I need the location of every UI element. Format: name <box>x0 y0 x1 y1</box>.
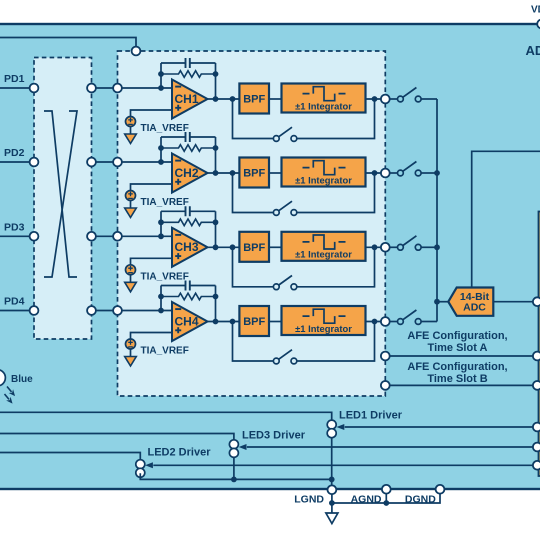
LED3 driver current source <box>229 440 238 458</box>
node PD3 AFE edge <box>113 232 122 241</box>
capacitor C4 plates <box>186 281 190 291</box>
wire integrator1 out <box>366 98 386 100</box>
integrator block 3 <box>282 232 366 261</box>
wire LED2 driver bus <box>0 453 140 460</box>
BPF block 3 <box>239 232 269 262</box>
junction CH4 output fb <box>213 319 219 325</box>
source TIA_VREF1 plus-minus <box>128 118 133 125</box>
wire bypass4 up <box>297 322 375 362</box>
junction CH4 fb-res right <box>213 294 219 300</box>
junction bypass rejoin CH4 <box>372 319 378 325</box>
capacitor C2 wires <box>161 136 216 138</box>
wire slot1 to bus <box>421 98 437 100</box>
junction CH2 input <box>158 159 164 165</box>
pad LGND <box>328 485 337 494</box>
wire LGND to ground <box>331 494 333 513</box>
junction CH3 fb-res left <box>158 219 164 225</box>
wire ADC output <box>493 301 537 303</box>
reference arrow TIA_VREF4 <box>125 357 137 367</box>
pad LED2 ctrl (right edge) <box>533 461 540 470</box>
op-amp CH1 minus mark <box>175 86 181 88</box>
capacitor C2 plates <box>186 132 190 142</box>
pad AGND <box>382 485 391 494</box>
wire BPF1 to integrator <box>269 98 282 100</box>
wire ADC input bus <box>436 99 438 322</box>
node CH2 AFE output <box>381 169 390 178</box>
wire CH3 inverting input <box>118 235 173 237</box>
BPF block 1 <box>239 84 269 114</box>
op-amp CH1 <box>172 80 208 119</box>
wire VDD feed <box>0 38 136 52</box>
junction CH4 input <box>158 308 164 314</box>
integrator 2 chopper glyph <box>303 161 346 175</box>
switch bypass3 lever <box>279 276 292 286</box>
pad LED1 ctrl (right edge) <box>533 423 540 432</box>
node PD1 AFE edge <box>113 84 122 93</box>
op-amp CH2 plus mark <box>175 179 181 185</box>
op-amp CH2 <box>172 154 208 193</box>
switch slot2 lever <box>403 162 417 172</box>
op-amp CH1 plus mark <box>175 105 181 111</box>
junction CH4 fb-res left <box>158 294 164 300</box>
switch bypass3 left contact <box>273 284 279 290</box>
wire CH4 noninverting input <box>131 333 173 340</box>
capacitor C3 wires <box>161 210 216 212</box>
svg-text:ADC: ADC <box>463 301 486 313</box>
wire CH1 noninverting input <box>131 110 173 117</box>
wire CH2 feedback right <box>215 137 217 173</box>
node PD4 AFE edge <box>113 306 122 315</box>
svg-text:CH1: CH1 <box>174 92 198 106</box>
op-amp CH4 minus mark <box>175 308 181 310</box>
svg-text:VDD: VDD <box>531 5 540 16</box>
svg-text:±1 Integrator: ±1 Integrator <box>295 249 352 260</box>
wire CH3 feedback left <box>160 211 162 236</box>
wire to slot switch 2 <box>390 172 398 174</box>
svg-text:LED2 Driver: LED2 Driver <box>148 447 212 459</box>
svg-text:TIA_VREF: TIA_VREF <box>141 271 189 282</box>
wire to slot switch 1 <box>390 98 398 100</box>
junction bypass tap CH3 <box>230 244 236 250</box>
ground symbol <box>326 513 338 524</box>
wire PD3 input <box>0 235 34 237</box>
wire CH1 feedback left <box>160 63 162 88</box>
wire LED1 driver bus <box>0 412 332 420</box>
wire BPF2 to integrator <box>269 172 282 174</box>
wire CH2 output <box>208 172 240 174</box>
LED Blue emission arrows <box>2 385 17 406</box>
junction CH1 output fb <box>213 96 219 102</box>
switch bypass1 left contact <box>273 136 279 142</box>
switch bypass3 right contact <box>291 284 297 290</box>
LED1 driver control arrowhead <box>337 424 345 430</box>
resistor R2 <box>161 145 216 152</box>
LED3 driver control arrowhead <box>239 444 247 450</box>
pad slot B (right edge) <box>533 381 540 390</box>
ADC block (14-bit) <box>448 288 493 316</box>
node PD1 crossbar right <box>87 84 96 93</box>
svg-text:BPF: BPF <box>243 242 265 254</box>
junction bypass tap CH1 <box>230 96 236 102</box>
junction CH1 fb-res right <box>213 71 219 77</box>
node PD4 crossbar left <box>30 306 39 315</box>
node PD2 crossbar left <box>30 158 39 167</box>
svg-text:CH2: CH2 <box>174 166 198 180</box>
wire bypass2 up <box>297 173 375 213</box>
svg-text:±1 Integrator: ±1 Integrator <box>295 100 352 111</box>
node CH1 AFE output <box>381 95 390 104</box>
switch slot2 right contact <box>415 170 421 176</box>
wire PD4 to AFE <box>92 310 118 312</box>
capacitor C1 plates <box>186 58 190 68</box>
pad LED3 ctrl (right edge) <box>533 443 540 452</box>
reference arrow TIA_VREF2 <box>125 208 137 218</box>
switch slot1 left contact <box>398 96 404 102</box>
wire to slot switch 4 <box>390 321 398 323</box>
integrator 1 chopper glyph <box>303 87 346 101</box>
switch bypass2 right contact <box>291 210 297 216</box>
node PD1 crossbar left <box>30 84 39 93</box>
switch slot3 right contact <box>415 244 421 250</box>
crossbar line 1 <box>44 111 77 277</box>
svg-text:±1 Integrator: ±1 Integrator <box>295 323 352 334</box>
junction bypass tap CH4 <box>230 319 236 325</box>
wire CH2 noninverting input <box>131 184 173 191</box>
wire PD4 input <box>0 310 34 312</box>
svg-text:BPF: BPF <box>243 94 265 106</box>
wire LED3 driver control <box>247 446 537 448</box>
wire CH1 output <box>208 98 240 100</box>
junction CH1 input <box>158 85 164 91</box>
integrator 3 chopper glyph <box>303 235 346 249</box>
wire bypass1 up <box>297 99 375 139</box>
junction bypass rejoin CH3 <box>372 244 378 250</box>
wire CH3 noninverting input <box>131 258 173 265</box>
junction AGND tie <box>383 500 389 506</box>
switch slot4 left contact <box>398 319 404 325</box>
op-amp CH4 plus mark <box>175 327 181 333</box>
wire PD1 to AFE <box>92 87 118 89</box>
svg-text:PD3: PD3 <box>4 221 25 233</box>
junction bypass rejoin CH2 <box>372 170 378 176</box>
wire bypass3 down <box>233 247 274 286</box>
wire LED3 driver bus <box>0 434 234 440</box>
LED2 driver current source <box>136 460 145 478</box>
resistor R1 <box>161 71 216 78</box>
wire CH2 feedback left <box>160 137 162 162</box>
op-amp CH4 <box>172 302 208 341</box>
switch slot1 lever <box>403 88 417 98</box>
switch bypass2 lever <box>279 201 292 211</box>
junction CH3 input <box>158 233 164 239</box>
pad DGND <box>436 485 445 494</box>
LED2 driver control arrowhead <box>145 462 153 468</box>
switch bypass4 left contact <box>273 358 279 364</box>
junction bus CH3 <box>434 244 440 250</box>
wire bypass2 down <box>233 173 274 213</box>
LED Blue (clipped at left edge) <box>0 370 5 386</box>
wire bus to ADC <box>437 301 448 303</box>
wire bypass3 up <box>297 247 375 286</box>
svg-text:PD4: PD4 <box>4 296 25 308</box>
wire BPF3 to integrator <box>269 246 282 248</box>
wire CH4 feedback left <box>160 286 162 311</box>
svg-text:CH4: CH4 <box>174 314 198 328</box>
wire PD3 to AFE <box>92 235 118 237</box>
svg-text:Time Slot A: Time Slot A <box>428 342 488 354</box>
junction bus CH2 <box>434 170 440 176</box>
switch slot3 left contact <box>398 244 404 250</box>
wire CH4 feedback right <box>215 286 217 322</box>
junction CH3 output fb <box>213 244 219 250</box>
node AFE config slot A <box>381 352 390 361</box>
reference arrow TIA_VREF1 <box>125 134 137 144</box>
pad ADC out (right edge) <box>533 297 540 306</box>
wire AFE config slot B <box>390 384 537 386</box>
reference arrow TIA_VREF3 <box>125 282 137 292</box>
wire AGND stem <box>385 494 387 503</box>
node AFE config slot B <box>381 381 390 390</box>
switch slot4 right contact <box>415 319 421 325</box>
svg-text:±1 Integrator: ±1 Integrator <box>295 174 352 185</box>
wire PD2 input <box>0 161 34 163</box>
wire ground tie bus <box>332 494 440 503</box>
wire TIA_VREF2 stem <box>130 201 132 209</box>
source TIA_VREF3 circle <box>126 265 136 275</box>
wire CH3 output <box>208 246 240 248</box>
junction bypass tap CH2 <box>230 170 236 176</box>
wire slot4 to bus <box>421 321 437 323</box>
BPF block 2 <box>239 158 269 188</box>
svg-text:BPF: BPF <box>243 316 265 328</box>
junction CH2 fb-res right <box>213 145 219 151</box>
node VDD feed on AFE box <box>132 47 141 56</box>
svg-text:LED1 Driver: LED1 Driver <box>339 410 403 422</box>
wire ADC clock elbow <box>472 151 540 287</box>
svg-text:AFE Configuration,: AFE Configuration, <box>407 330 507 342</box>
pad slot A (right edge) <box>533 352 540 361</box>
integrator 4 chopper glyph <box>303 309 346 323</box>
op-amp CH3 <box>172 228 208 267</box>
wire LED1 cathode <box>331 438 333 480</box>
wire slot3 to bus <box>421 246 437 248</box>
junction CH2 fb-res left <box>158 145 164 151</box>
node CH3 AFE output <box>381 243 390 252</box>
wire CH4 output <box>208 321 240 323</box>
svg-text:BPF: BPF <box>243 168 265 180</box>
svg-text:TIA_VREF: TIA_VREF <box>141 346 189 357</box>
source TIA_VREF3 plus-minus <box>128 266 133 273</box>
switch slot1 right contact <box>415 96 421 102</box>
integrator block 4 <box>282 306 366 335</box>
wire LED3 cathode <box>233 457 235 479</box>
switch bypass2 left contact <box>273 210 279 216</box>
LED1 driver current source <box>327 420 336 438</box>
switch bypass4 lever <box>279 350 292 360</box>
node CH4 AFE output <box>381 317 390 326</box>
source TIA_VREF2 circle <box>126 191 136 201</box>
wire integrator3 out <box>366 246 386 248</box>
capacitor C4 wires <box>161 285 216 287</box>
integrator block 1 <box>282 84 366 113</box>
junction bypass rejoin CH1 <box>372 96 378 102</box>
AFE channels box (dashed) <box>118 51 386 396</box>
switch slot2 left contact <box>398 170 404 176</box>
node PD3 crossbar left <box>30 232 39 241</box>
switch bypass1 lever <box>279 127 292 137</box>
crossbar line 2 <box>44 111 77 277</box>
switch slot4 lever <box>403 310 417 320</box>
source TIA_VREF2 plus-minus <box>128 192 133 199</box>
wire integrator4 out <box>366 321 386 323</box>
photodiode connection matrix box <box>34 58 92 340</box>
svg-text:AFE Configuration,: AFE Configuration, <box>407 361 507 373</box>
source TIA_VREF4 circle <box>126 339 136 349</box>
wire AFE config slot A <box>390 355 537 357</box>
wire to slot switch 3 <box>390 246 398 248</box>
wire slot2 to bus <box>421 172 437 174</box>
wire LED ground bus <box>140 473 331 479</box>
svg-text:TIA_VREF: TIA_VREF <box>141 123 189 134</box>
resistor R3 <box>161 219 216 226</box>
switch bypass4 right contact <box>291 358 297 364</box>
digital block (clipped at right edge) <box>539 212 540 477</box>
junction bus ADC tap <box>434 299 440 305</box>
wire TIA_VREF1 stem <box>130 127 132 135</box>
pad VDD (clipped at top right) <box>537 20 540 29</box>
junction LED3 ground <box>231 477 237 483</box>
junction CH2 output fb <box>213 170 219 176</box>
node PD2 AFE edge <box>113 158 122 167</box>
source TIA_VREF4 plus-minus <box>128 340 133 347</box>
junction ground tie <box>329 500 335 506</box>
svg-text:Blue: Blue <box>11 374 33 385</box>
wire bypass4 down <box>233 322 274 362</box>
wire LED2 driver control <box>153 464 537 466</box>
switch bypass1 right contact <box>291 136 297 142</box>
wire LGND drop <box>331 479 333 489</box>
op-amp CH3 minus mark <box>175 234 181 236</box>
capacitor C3 plates <box>186 206 190 216</box>
op-amp CH2 minus mark <box>175 160 181 162</box>
svg-text:LGND: LGND <box>294 493 324 505</box>
node PD3 crossbar right <box>87 232 96 241</box>
wire CH4 inverting input <box>118 310 173 312</box>
svg-text:CH3: CH3 <box>174 240 198 254</box>
wire PD2 to AFE <box>92 161 118 163</box>
node PD2 crossbar right <box>87 158 96 167</box>
wire CH2 inverting input <box>118 161 173 163</box>
junction CH1 fb-res left <box>158 71 164 77</box>
svg-text:Time Slot B: Time Slot B <box>427 373 487 385</box>
wire TIA_VREF3 stem <box>130 275 132 283</box>
wire CH3 feedback right <box>215 211 217 247</box>
wire PD1 input <box>0 87 34 89</box>
source TIA_VREF1 circle <box>126 117 136 127</box>
svg-text:ADPD4000: ADPD4000 <box>526 43 540 58</box>
wire BPF4 to integrator <box>269 321 282 323</box>
svg-text:TIA_VREF: TIA_VREF <box>141 197 189 208</box>
junction LED1 ground <box>329 477 335 483</box>
capacitor C1 wires <box>161 62 216 64</box>
resistor R4 <box>161 293 216 300</box>
wire CH1 inverting input <box>118 87 173 89</box>
integrator block 2 <box>282 158 366 187</box>
wire CH1 feedback right <box>215 63 217 99</box>
wire TIA_VREF4 stem <box>130 349 132 357</box>
svg-text:PD1: PD1 <box>4 73 25 85</box>
op-amp CH3 plus mark <box>175 253 181 259</box>
junction CH3 fb-res right <box>213 219 219 225</box>
node PD4 crossbar right <box>87 306 96 315</box>
BPF block 4 <box>239 306 269 336</box>
svg-text:PD2: PD2 <box>4 147 25 159</box>
switch slot3 lever <box>403 236 417 246</box>
svg-text:LED3 Driver: LED3 Driver <box>242 429 306 441</box>
wire LED1 driver control <box>345 426 537 428</box>
wire integrator2 out <box>366 172 386 174</box>
wire bypass1 down <box>233 99 274 139</box>
